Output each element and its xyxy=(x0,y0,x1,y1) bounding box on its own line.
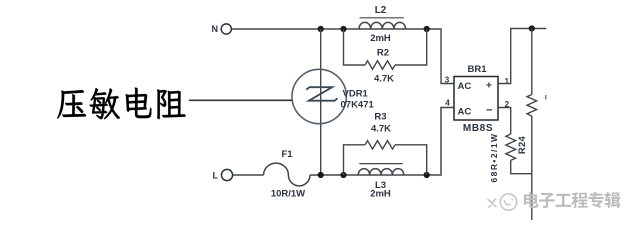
svg-text:L2: L2 xyxy=(375,5,387,16)
callout annotation text (varistor) xyxy=(57,90,86,119)
watermark text xyxy=(524,192,539,208)
svg-text:4.7K: 4.7K xyxy=(371,124,391,135)
fuse F1 xyxy=(264,163,310,186)
terminal L xyxy=(221,169,232,180)
callout leader line xyxy=(189,99,292,101)
svg-text:68R•2/1W: 68R•2/1W xyxy=(489,132,499,182)
svg-text:07K471: 07K471 xyxy=(341,100,375,111)
junction node top L2 right xyxy=(424,26,430,32)
resistor R3 xyxy=(365,141,395,149)
terminal N xyxy=(221,24,231,34)
junction node top L2 left xyxy=(340,26,346,32)
wire varistor branch vertical xyxy=(320,29,322,175)
svg-text:AC: AC xyxy=(458,107,472,118)
svg-text:AC: AC xyxy=(458,81,472,92)
svg-text:−: − xyxy=(486,105,492,117)
wire right rail upper segment xyxy=(531,29,533,95)
svg-text:R3: R3 xyxy=(374,112,386,123)
svg-text:L: L xyxy=(213,171,219,181)
wire R2 parallel loop right leg xyxy=(395,29,427,65)
wire top net N: terminal to BR1 pin 3 xyxy=(232,29,454,84)
varistor VDR1 body circle xyxy=(292,69,346,123)
svg-text:+: + xyxy=(486,81,492,92)
label tick right of rail resistor xyxy=(545,95,547,100)
resistor R2 xyxy=(365,61,395,69)
varistor VDR1 Z symbol xyxy=(306,87,337,101)
wire bottom net L: terminal to fuse xyxy=(233,174,263,176)
svg-text:3: 3 xyxy=(445,76,450,85)
svg-text:VDR1: VDR1 xyxy=(343,89,369,100)
wire R24 bottom to rail xyxy=(511,160,532,173)
resistor on right rail xyxy=(527,95,537,117)
inductor L3 xyxy=(358,169,403,175)
wire BR1 pin 1 to top-right node xyxy=(498,29,546,84)
wire BR1 pin 2 down to R24 xyxy=(498,108,511,135)
svg-text:R2: R2 xyxy=(377,48,389,59)
wire bottom net: fuse to BR1 pin 4 xyxy=(310,108,454,176)
svg-text:1: 1 xyxy=(505,77,510,86)
bridge rectifier BR1 body xyxy=(454,77,498,121)
wire R3 parallel loop right leg xyxy=(395,145,427,175)
svg-text:N: N xyxy=(212,24,219,34)
svg-text:4: 4 xyxy=(445,99,450,108)
svg-text:BR1: BR1 xyxy=(467,64,487,75)
svg-text:4.7K: 4.7K xyxy=(374,74,394,85)
wire right rail lower segment xyxy=(531,116,533,220)
junction node bottom L3 right xyxy=(424,172,430,178)
resistor R24 xyxy=(506,134,516,161)
wire R2 parallel loop left leg xyxy=(344,29,366,65)
svg-text:F1: F1 xyxy=(281,149,293,160)
inductor L2 xyxy=(359,22,406,28)
svg-text:2mH: 2mH xyxy=(370,33,391,44)
svg-text:10R/1W: 10R/1W xyxy=(271,188,305,199)
svg-text:MB8S: MB8S xyxy=(463,123,493,134)
watermark logo xyxy=(488,199,497,208)
svg-text:2mH: 2mH xyxy=(370,189,391,200)
wire R3 parallel loop left leg xyxy=(344,145,366,175)
junction node top-right rail xyxy=(529,25,535,31)
junction node bottom L3 left xyxy=(340,172,346,178)
junction node bottom varistor branch xyxy=(318,172,324,178)
junction node top varistor branch xyxy=(318,26,324,32)
svg-text:R24: R24 xyxy=(516,135,527,154)
